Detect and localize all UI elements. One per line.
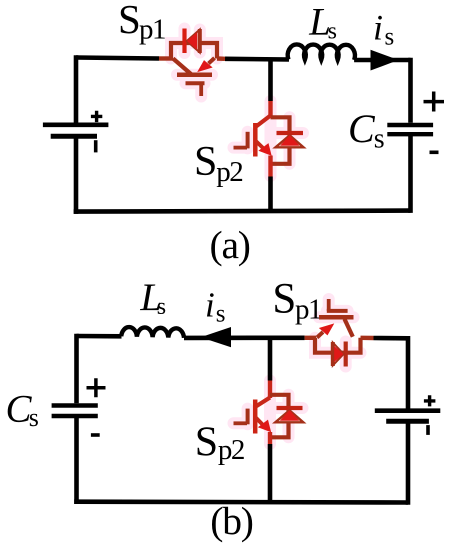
wire: circuit b left side lower <box>74 416 79 504</box>
wire: circuit a bottom <box>74 211 411 212</box>
switch Sp1 (circuit a): IGBT channel bar <box>177 73 212 78</box>
battery B1 (circuit a): minus tick <box>94 140 98 152</box>
caption (b) <box>210 499 253 543</box>
switch Sp2 (circuit b): red emitter wire <box>268 432 272 444</box>
label is (circuit b) <box>205 285 225 327</box>
switch Sp2 (circuit a): red collector wire <box>268 101 272 116</box>
inductor Ls (circuit a) <box>288 44 355 60</box>
switch Sp2 (circuit b): gate lead <box>234 421 248 425</box>
wire: circuit a top-middle segment <box>225 56 289 61</box>
switch Sp2 (circuit b): red collector wire <box>268 381 272 399</box>
battery B1 (circuit a): short plate <box>51 134 97 139</box>
switch Sp1 (circuit a): gate bar <box>186 81 205 85</box>
wire: circuit b middle branch lower black <box>268 444 273 502</box>
switch Sp1 (circuit b): IGBT emitter diagonal with arrow <box>317 325 333 338</box>
switch Sp2 (circuit b): diode D cathode bar <box>277 406 303 410</box>
pink jpeg halo around red symbols (decorative) <box>171 29 361 445</box>
switch Sp2 (circuit b): diode loop <box>270 395 289 438</box>
switch Sp1 (circuit a): diode D triangle (points left) <box>187 29 200 53</box>
switch Sp2 (circuit a): red emitter wire <box>268 156 272 177</box>
svg-text:S: S <box>194 139 217 185</box>
switch Sp2 (circuit b): gate bar <box>246 409 250 425</box>
wire: circuit a right side upper <box>408 58 413 123</box>
label is (circuit a) <box>373 8 394 51</box>
battery B1 (circuit b): long plate <box>375 408 441 413</box>
caption (a) <box>210 223 250 267</box>
capacitor Cs (circuit a): plus sign <box>424 92 445 112</box>
switch Sp1 (circuit a): gate lead <box>199 83 203 96</box>
svg-text:C: C <box>348 106 376 151</box>
svg-text:s: s <box>328 18 337 44</box>
battery B1 (circuit b): short plate <box>386 419 429 424</box>
svg-text:s: s <box>216 301 226 328</box>
battery B1 (circuit b): minus tick <box>426 425 430 435</box>
wire: circuit a middle branch lower black <box>268 177 273 212</box>
label Sp2 (circuit b) <box>195 419 244 466</box>
capacitor Cs (circuit b): top plate <box>52 403 98 407</box>
wire: circuit a left side upper <box>74 55 79 122</box>
switch Sp1 (circuit a): red wire stub right <box>217 56 225 61</box>
switch Sp1 (circuit a): IGBT collector diagonal <box>173 59 192 75</box>
switch Sp1 (circuit b): gate lead <box>327 299 331 311</box>
battery B1 (circuit a): plus sign <box>91 111 102 122</box>
svg-text:S: S <box>272 276 296 323</box>
switch Sp2 (circuit a): gate lead <box>234 146 248 150</box>
label Sp1 (circuit a) <box>118 0 165 46</box>
wire: circuit a right side lower <box>408 134 413 213</box>
capacitor Cs (circuit b): minus sign <box>91 433 100 437</box>
battery B1 (circuit a): long plate <box>43 123 109 128</box>
switch Sp1 (circuit b): diode D triangle (points right) <box>333 342 344 366</box>
inductor Ls (circuit b) <box>121 327 184 338</box>
switch Sp1 (circuit a): diode D cathode bar <box>182 29 186 54</box>
svg-text:s: s <box>385 24 395 51</box>
capacitor Cs (circuit b): bottom plate <box>52 414 98 418</box>
label Ls (circuit b) <box>139 276 166 320</box>
label Cs (circuit a) <box>348 106 385 154</box>
svg-text:S: S <box>195 419 218 465</box>
svg-text:p1: p1 <box>295 293 321 325</box>
label Sp2 (circuit a) <box>194 139 242 188</box>
svg-text:p2: p2 <box>216 156 242 188</box>
label Cs (circuit b) <box>6 387 39 432</box>
label Ls (circuit a) <box>308 0 337 44</box>
wire: circuit b left side upper <box>74 334 79 404</box>
switch Sp2 (circuit a): IGBT channel bar <box>253 123 258 157</box>
switch Sp1 (circuit a): diode loop above wire <box>171 43 217 59</box>
wire: circuit a top-right segment <box>354 58 410 63</box>
capacitor Cs (circuit a): bottom plate <box>387 132 433 136</box>
battery B1 (circuit b): plus sign <box>424 395 436 406</box>
svg-text:i: i <box>373 8 383 48</box>
svg-text:i: i <box>205 285 215 324</box>
switch Sp1 (circuit b): red wire stub left <box>305 336 316 340</box>
switch Sp2 (circuit b): IGBT channel bar <box>253 400 258 434</box>
svg-text:S: S <box>118 0 141 42</box>
capacitor Cs (circuit a): minus sign <box>430 151 439 155</box>
switch Sp1 (circuit b): IGBT collector diagonal <box>345 319 353 337</box>
switch Sp1 (circuit a): red wire stub left <box>159 56 173 60</box>
label Sp1 (circuit b) <box>272 276 321 326</box>
capacitor Cs (circuit a): top plate <box>387 123 433 127</box>
node: circuit a middle junction / wire down <box>268 59 273 101</box>
svg-text:s: s <box>374 123 385 154</box>
switch Sp2 (circuit a): IGBT emitter diagonal with arrow <box>255 141 270 155</box>
wire: circuit b right side upper <box>406 336 411 409</box>
wire: circuit a top-left segment <box>76 58 159 59</box>
switch Sp2 (circuit a): diode D triangle (points up) <box>276 135 304 147</box>
wire: circuit b top-right segment <box>374 336 409 341</box>
node: circuit b middle junction / wire down <box>268 338 273 381</box>
wire: circuit b top-left segment <box>77 334 122 339</box>
svg-text:s: s <box>157 294 166 320</box>
switch Sp2 (circuit a): diode D cathode bar <box>277 131 304 135</box>
svg-text:p2: p2 <box>218 434 244 466</box>
svg-text:p1: p1 <box>139 14 165 46</box>
svg-text:(a): (a) <box>210 223 250 267</box>
switch Sp1 (circuit b): gate bar <box>327 309 348 313</box>
svg-text:s: s <box>29 403 39 432</box>
switch Sp1 (circuit a): IGBT emitter diagonal with arrow <box>199 58 215 71</box>
switch Sp2 (circuit b): IGBT emitter diagonal with arrow <box>255 417 270 431</box>
switch Sp2 (circuit a): gate bar <box>246 132 250 149</box>
current arrow is (circuit b, pointing left) <box>201 327 231 347</box>
switch Sp1 (circuit b): IGBT channel bar <box>319 315 354 320</box>
switch Sp2 (circuit a): IGBT collector diagonal <box>256 116 271 127</box>
current arrow is (circuit a, pointing right) <box>371 50 399 71</box>
switch Sp1 (circuit b): diode loop below wire <box>315 338 361 353</box>
wire: circuit b right side lower <box>406 421 411 505</box>
switch Sp1 (circuit b): diode D cathode bar <box>344 342 348 367</box>
wire: circuit a left side lower <box>74 136 79 214</box>
switch Sp2 (circuit b): IGBT collector diagonal <box>256 398 270 407</box>
switch Sp2 (circuit b): diode D triangle (points up) <box>275 410 303 422</box>
switch Sp1 (circuit b): red wire stub right <box>361 336 374 341</box>
svg-text:(b): (b) <box>210 499 253 543</box>
capacitor Cs (circuit b): plus sign <box>87 378 106 397</box>
switch Sp2 (circuit a): diode loop <box>271 117 290 164</box>
wire: circuit b bottom <box>74 499 408 504</box>
wire: circuit b top-middle segment <box>184 335 305 340</box>
